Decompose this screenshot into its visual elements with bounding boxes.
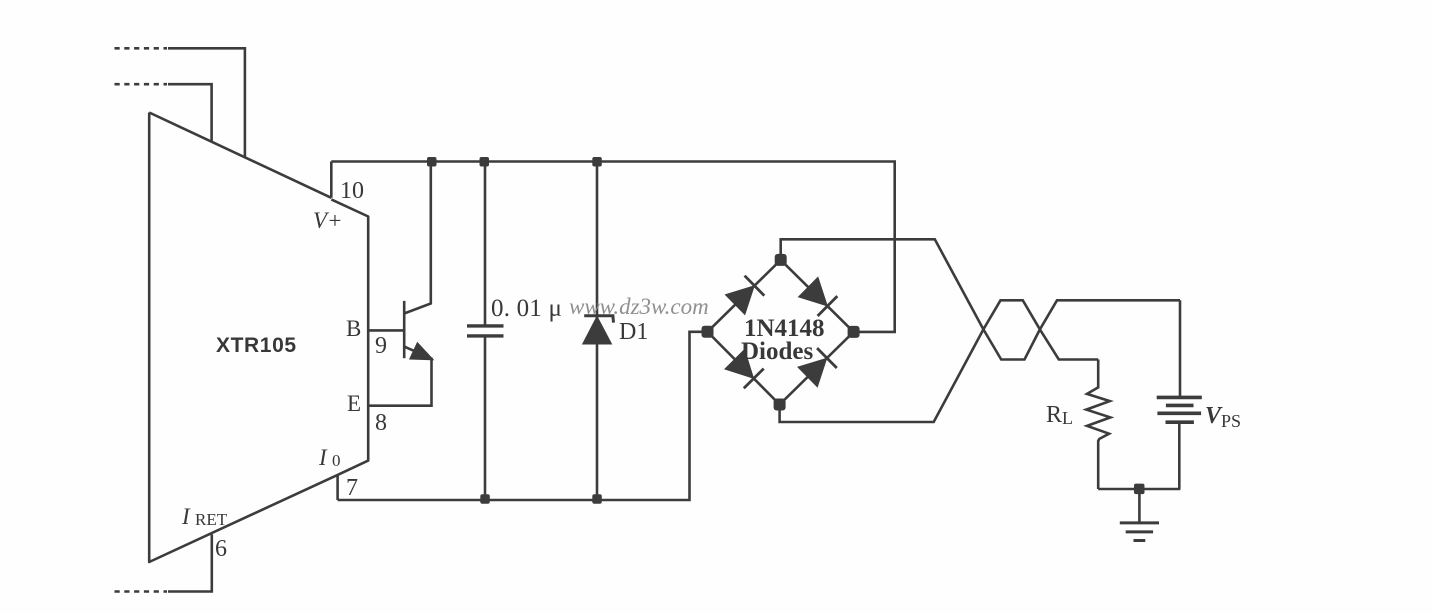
svg-text:R: R	[1046, 402, 1062, 428]
junction node: C1 / top rail	[480, 157, 490, 167]
transistor Q1 (external NPN on pins 9/8)	[368, 162, 432, 406]
junction node: bridge top corner	[775, 254, 787, 266]
base bar	[403, 301, 406, 358]
wire: top-left stub 2 (dashed lead-in)	[115, 84, 212, 142]
junction node: bridge bottom corner	[774, 399, 786, 411]
svg-text:6: 6	[215, 536, 227, 562]
bridge diode D3 (top to right)	[800, 278, 838, 316]
svg-text:I: I	[181, 504, 191, 529]
svg-text:D1: D1	[619, 319, 648, 345]
bridge diode D4 (left to bottom)	[726, 351, 764, 389]
svg-text:E: E	[347, 391, 361, 416]
wire: bridge bottom corner to twist lower-left	[780, 329, 984, 422]
wire: bottom return (RL to battery)	[1098, 488, 1180, 491]
svg-text:PS: PS	[1221, 411, 1241, 431]
svg-text:V+: V+	[313, 208, 343, 233]
svg-text:0. 01 μ: 0. 01 μ	[491, 295, 562, 322]
junction node: C1 / bottom rail	[480, 494, 490, 504]
svg-text:Diodes: Diodes	[741, 338, 814, 365]
battery VPS	[1157, 397, 1202, 489]
junction node: bridge right corner	[848, 326, 860, 338]
bridge diode D2 (left to top)	[726, 276, 764, 314]
svg-text:8: 8	[375, 410, 387, 436]
svg-text:7: 7	[346, 475, 358, 501]
junction node: D1 / bottom rail	[592, 494, 602, 504]
emitter with arrow	[368, 347, 431, 406]
wire: top-left stub 1 (dashed lead-in)	[115, 48, 245, 157]
wire: V+ rail (pin 10 to right, down to bridge right corner)	[331, 162, 894, 332]
svg-text:XTR105: XTR105	[216, 334, 297, 357]
svg-text:RET: RET	[195, 510, 228, 529]
bridge diode D5 (bottom to right)	[799, 348, 837, 386]
svg-text:L: L	[1062, 408, 1073, 428]
diode D1 (shunt, vertical)	[584, 162, 614, 500]
base wire	[368, 329, 404, 332]
wire: I0 bottom rail (pin 7 to bridge left riser)	[338, 332, 708, 500]
diode bridge outline (1N4148 diamond)	[708, 260, 854, 405]
wire: bridge top corner to twist upper-left	[781, 239, 984, 329]
svg-text:10: 10	[340, 178, 364, 204]
ground	[1120, 489, 1159, 541]
twisted pair crossover	[983, 300, 1180, 359]
svg-text:I: I	[318, 445, 328, 470]
svg-text:B: B	[346, 316, 361, 341]
svg-text:www.dz3w.com: www.dz3w.com	[569, 294, 709, 319]
junction node: bridge left corner	[702, 326, 714, 338]
resistor RL (zigzag)	[1086, 387, 1110, 489]
junction node: D1 / top rail	[592, 157, 602, 167]
svg-text:0: 0	[332, 451, 341, 470]
wire: bottom-left stub (dashed lead-in, pin 6)	[115, 534, 212, 591]
junction node: collector / top rail	[427, 157, 437, 167]
junction node: ground / bottom return	[1134, 484, 1145, 495]
wire: twist top to battery	[1179, 300, 1182, 397]
capacitor C1 0.01u	[467, 162, 504, 500]
svg-text:9: 9	[375, 333, 387, 359]
IC U1 XTR105 body (trapezoid outline)	[149, 113, 368, 563]
collector	[404, 162, 431, 314]
wire: twist to load resistor	[1097, 360, 1100, 389]
